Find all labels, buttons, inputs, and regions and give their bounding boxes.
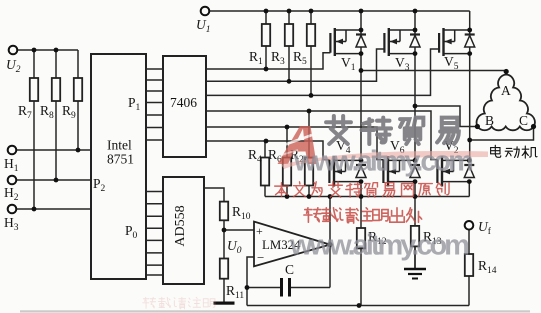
wire bottom rail — [247, 305, 469, 307]
wire source rail — [265, 196, 469, 198]
diode D6 — [410, 165, 420, 178]
wire R9 column — [77, 50, 79, 78]
wire R6 stubs — [286, 127, 288, 158]
wire R10 to U0 node — [223, 220, 225, 258]
diode D5 — [465, 35, 475, 48]
wire R4 stubs — [264, 141, 266, 158]
ground under R13 — [404, 269, 426, 279]
wire U1 top rail — [210, 10, 470, 12]
watermark red row 转载请注明出处 — [304, 208, 422, 223]
resistor R8 — [52, 78, 60, 101]
transistor V6 — [383, 156, 415, 187]
wire cap feedback row — [247, 287, 280, 289]
resistor R13 — [411, 226, 419, 247]
svg-text:Intel: Intel — [107, 138, 132, 153]
terminal U1 — [201, 7, 210, 16]
wire phase column B — [414, 11, 416, 160]
svg-text:C: C — [285, 262, 294, 277]
label motor name 电动机 — [491, 145, 537, 158]
watermark big 艾特贸易 — [326, 116, 459, 144]
IC U-AD558 — [163, 177, 204, 284]
svg-text:C: C — [519, 113, 528, 128]
ground under R11 — [214, 302, 235, 305]
transistor V4 — [329, 156, 361, 187]
wire U0 to op-amp + — [224, 229, 254, 231]
resistor R10 — [220, 202, 228, 221]
wire R5 stubs — [310, 11, 312, 24]
transistor V5 — [439, 28, 470, 56]
resistor R9 — [74, 78, 82, 101]
wire 7406 out line5 to V6 gate — [206, 127, 383, 160]
transistor V1 — [330, 28, 361, 56]
wire R7 column — [33, 50, 35, 78]
wire phase C to motor — [470, 127, 534, 141]
wire top rail corner down to V5 column — [469, 11, 471, 30]
resistor R3 — [285, 24, 293, 46]
bottom edge smear — [20, 310, 530, 312]
IC U-7406 — [163, 56, 206, 157]
diode D3 — [410, 35, 420, 48]
diode D4 — [356, 165, 366, 178]
diode D2 — [464, 165, 474, 178]
svg-text:8751: 8751 — [107, 152, 134, 167]
resistor R14 — [465, 254, 473, 276]
wire 7406 out line6 to V4 gate — [206, 141, 329, 160]
resistor R12 — [357, 228, 365, 248]
watermark red row 本文为艾特贸易网原创 — [275, 182, 449, 197]
wires 8751 P1 to 7406 (7 rungs) — [146, 68, 163, 70]
wire R2 stubs — [308, 111, 310, 158]
terminal H2 — [8, 176, 17, 185]
svg-text:7406: 7406 — [170, 95, 197, 110]
wire 7406 out line1 to V1 gate — [206, 53, 330, 69]
svg-text:B: B — [485, 113, 494, 128]
op-amp U-LM324 — [254, 222, 330, 267]
svg-text:www.aitmy.com: www.aitmy.com — [289, 230, 468, 262]
resistor R11 — [220, 259, 228, 279]
wire H3 row — [17, 208, 92, 210]
wire R11 to ground — [223, 279, 225, 303]
terminal H1 — [8, 146, 17, 155]
wire op-amp minus feedback — [247, 257, 254, 306]
wire H1 row — [17, 149, 92, 151]
faint pink remnant bottom-left — [143, 297, 215, 309]
resistor R1 — [262, 24, 270, 46]
wire V2 source corner — [468, 182, 470, 197]
wire R1 stubs — [265, 11, 267, 24]
wire AD558 out to R10 — [204, 188, 224, 202]
wire R8 column — [55, 50, 57, 78]
wire R3 stubs — [288, 11, 290, 24]
wire phase column C — [469, 30, 471, 160]
wire U2 row — [18, 49, 79, 51]
resistor R5 — [307, 24, 315, 46]
svg-text:www.aitmy.com: www.aitmy.com — [293, 146, 472, 178]
resistor R2 — [305, 158, 313, 186]
svg-text:AD558: AD558 — [173, 205, 188, 246]
wire 7406 out line2 to V3 gate — [206, 49, 384, 81]
terminal Uf — [465, 221, 474, 230]
terminal H3 — [8, 205, 17, 214]
transistor V3 — [384, 28, 415, 56]
wire phase A to motor apex — [361, 70, 506, 72]
diode D1 — [356, 35, 366, 48]
IC U-8751 Intel 8751 — [91, 54, 146, 279]
wire H2 row — [17, 179, 92, 181]
watermark pink band swoosh — [281, 151, 488, 169]
svg-text:−: − — [257, 250, 264, 265]
wires 8751 P0 to AD558 (8 rungs) — [146, 191, 163, 193]
resistor R7 — [30, 78, 38, 101]
wire 7406 out line3 to V5 gate — [206, 49, 439, 95]
transistor V2 — [437, 156, 469, 187]
svg-text:A: A — [501, 83, 511, 98]
svg-text:+: + — [256, 224, 263, 238]
terminal U2 — [9, 46, 18, 55]
wire op-amp output column — [329, 197, 331, 288]
capacitor C — [282, 278, 290, 297]
wire R14 column — [468, 230, 470, 254]
wire phase column A — [360, 11, 362, 160]
resistor R6 — [283, 158, 291, 186]
resistor R4 — [261, 158, 269, 186]
wire 7406 out line4 to V2 gate — [206, 111, 437, 160]
wire R13 ground stem — [414, 246, 416, 269]
motor windings (delta) — [477, 75, 535, 131]
watermark logo A — [278, 126, 317, 164]
wire phase B to motor — [415, 106, 477, 127]
